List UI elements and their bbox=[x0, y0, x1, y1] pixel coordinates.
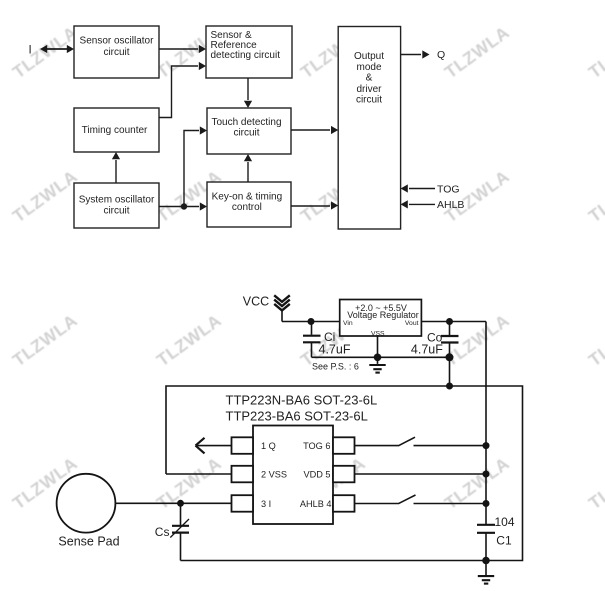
wire: ground net rectangle (top edge, right edge, bottom, left edge to VSS pin) bbox=[166, 386, 523, 561]
wire: B7 to B3 arrow bbox=[291, 201, 338, 209]
wire: B5 to B3 arrow bbox=[291, 126, 338, 134]
junction node TOG/VDD net bbox=[483, 442, 490, 449]
node VCC label bbox=[243, 295, 269, 309]
svg-text:TLZWLA: TLZWLA bbox=[9, 22, 81, 82]
svg-text:VDD 5: VDD 5 bbox=[303, 469, 330, 479]
wire: TOG input arrow into B3 bbox=[401, 184, 435, 192]
pin 3 box (I) bbox=[232, 495, 254, 512]
node AHLB label bbox=[437, 199, 464, 211]
svg-text:Q: Q bbox=[437, 49, 445, 61]
svg-text:TLZWLA: TLZWLA bbox=[441, 166, 513, 226]
power symbol VCC (triple chevron) bbox=[274, 295, 290, 310]
value label Ci 4.7uF bbox=[319, 343, 351, 357]
wire: rail right segment regulator Vout to VDD corner bbox=[421, 321, 486, 323]
pin 2 box (VSS) bbox=[232, 466, 254, 483]
svg-text:1 Q: 1 Q bbox=[261, 441, 276, 451]
svg-text:Cs: Cs bbox=[155, 525, 170, 539]
svg-text:TLZWLA: TLZWLA bbox=[153, 453, 225, 513]
svg-text:TLZWLA: TLZWLA bbox=[585, 22, 605, 82]
svg-text:&: & bbox=[366, 73, 373, 84]
label TTP223-BA6 SOT-23-6L bbox=[226, 409, 368, 424]
wire: VCC rail left segment to regulator Vin bbox=[282, 321, 340, 323]
wire: B1 to B2 arrow bbox=[159, 45, 206, 53]
wire: ground line Ci to Co bbox=[312, 356, 450, 358]
wire: Q output arrow from pin 1 bbox=[196, 438, 232, 454]
wire: B6 to B4 arrow bbox=[112, 152, 120, 183]
label C1 bbox=[496, 534, 512, 548]
svg-text:AHLB: AHLB bbox=[437, 199, 464, 211]
svg-text:TOG: TOG bbox=[437, 183, 460, 195]
wire: junction up to B5 arrow bbox=[184, 126, 207, 206]
svg-text:Vin: Vin bbox=[343, 320, 353, 327]
sense pad electrode bbox=[57, 474, 116, 533]
svg-text:mode: mode bbox=[356, 62, 381, 73]
pin 4 box (AHLB) bbox=[333, 495, 355, 512]
junction node rail/Ci bbox=[308, 318, 315, 325]
svg-text:See P.S. : 6: See P.S. : 6 bbox=[312, 361, 359, 371]
wire: I bidirectional arrow to B1 bbox=[40, 45, 74, 53]
svg-text:System oscillator: System oscillator bbox=[79, 195, 155, 206]
svg-text:3 I: 3 I bbox=[261, 499, 271, 509]
svg-text:Output: Output bbox=[354, 51, 384, 62]
svg-text:circuit: circuit bbox=[356, 95, 382, 106]
svg-text:TOG 6: TOG 6 bbox=[303, 441, 330, 451]
node TOG label bbox=[437, 183, 460, 195]
block B1: Sensor oscillator circuit bbox=[74, 26, 159, 78]
svg-text:C1: C1 bbox=[496, 534, 512, 548]
label Ci bbox=[324, 330, 335, 344]
block B4: Timing counter bbox=[74, 108, 159, 152]
svg-text:VCC: VCC bbox=[243, 295, 269, 309]
wire: B6 to B7 arrow bbox=[159, 202, 207, 210]
voltage regulator U1 bbox=[340, 300, 422, 338]
svg-text:Touch detecting: Touch detecting bbox=[211, 117, 281, 128]
block B6: System oscillator circuit bbox=[74, 183, 159, 228]
svg-text:TLZWLA: TLZWLA bbox=[9, 310, 81, 370]
wire: pin 5 VDD row bbox=[355, 473, 487, 475]
junction node VSS/ground line bbox=[374, 354, 382, 362]
wire: AHLB input arrow into B3 bbox=[401, 200, 435, 208]
svg-text:AHLB 4: AHLB 4 bbox=[300, 499, 332, 509]
svg-text:TLZWLA: TLZWLA bbox=[585, 166, 605, 226]
svg-text:TLZWLA: TLZWLA bbox=[585, 453, 605, 513]
pin label AHLB 4 bbox=[300, 499, 332, 509]
junction node AHLB/VDD net bbox=[483, 500, 490, 507]
svg-text:circuit: circuit bbox=[103, 205, 129, 216]
capacitor C1 bbox=[477, 525, 495, 533]
svg-text:TLZWLA: TLZWLA bbox=[153, 310, 225, 370]
capacitor Co bbox=[441, 322, 459, 387]
junction node VDD row bbox=[483, 471, 490, 478]
svg-text:TLZWLA: TLZWLA bbox=[441, 22, 513, 82]
pin label TOG 6 bbox=[303, 441, 330, 451]
ground symbol at VSS bbox=[369, 357, 385, 372]
svg-text:TLZWLA: TLZWLA bbox=[9, 166, 81, 226]
node Q label bbox=[437, 49, 445, 61]
svg-text:TLZWLA: TLZWLA bbox=[585, 310, 605, 370]
value label 104 bbox=[495, 515, 515, 529]
svg-text:Sense Pad: Sense Pad bbox=[58, 534, 119, 548]
wire: regulator VSS stem bbox=[377, 336, 379, 357]
wire: B3 to Q output arrow bbox=[401, 50, 430, 58]
junction node Co/ground top edge bbox=[446, 383, 453, 390]
IC U2 body TTP223 bbox=[253, 426, 333, 525]
pin label 2 VSS bbox=[261, 469, 287, 479]
svg-text:Sensor oscillator: Sensor oscillator bbox=[80, 36, 155, 47]
svg-text:Vout: Vout bbox=[405, 320, 419, 327]
note label See P.S. : 6 bbox=[312, 361, 359, 371]
svg-text:circuit: circuit bbox=[233, 128, 259, 139]
pin label VDD 5 bbox=[303, 469, 330, 479]
capacitor Ci bbox=[303, 322, 321, 358]
label Sense Pad bbox=[58, 534, 119, 548]
wire: VDD vertical net bbox=[485, 322, 487, 561]
svg-text:TTP223-BA6 SOT-23-6L: TTP223-BA6 SOT-23-6L bbox=[226, 409, 368, 424]
junction node Co/ground line bbox=[446, 353, 454, 361]
capacitor Cs (adjustable) bbox=[170, 503, 189, 560]
svg-text:TTP223N-BA6 SOT-23-6L: TTP223N-BA6 SOT-23-6L bbox=[226, 393, 378, 408]
junction node bottom ground bbox=[482, 557, 490, 565]
block B2: Sensor & Reference detecting circuit bbox=[206, 26, 292, 78]
pin 5 box (VDD) bbox=[333, 466, 355, 483]
svg-text:4.7uF: 4.7uF bbox=[411, 343, 443, 357]
pin 6 box (TOG) bbox=[333, 437, 355, 454]
svg-text:2 VSS: 2 VSS bbox=[261, 469, 287, 479]
svg-text:control: control bbox=[232, 202, 262, 213]
wire: VCC stem to rail bbox=[281, 309, 283, 322]
pin label 3 I bbox=[261, 499, 271, 509]
pin 1 box (Q) bbox=[232, 437, 254, 454]
junction node on B6 output bbox=[181, 203, 187, 209]
svg-text:Voltage Regulator: Voltage Regulator bbox=[347, 310, 419, 320]
junction node pad wire / Cs bbox=[177, 500, 184, 507]
wire: B2 to B5 arrow bbox=[244, 78, 252, 108]
svg-text:Timing counter: Timing counter bbox=[82, 125, 148, 136]
wire: B7 to B5 arrow bbox=[244, 154, 252, 182]
value label Co 4.7uF bbox=[411, 343, 443, 357]
wire: pin 4 AHLB row with switch S2 bbox=[355, 495, 487, 504]
ground symbol at bottom bbox=[478, 561, 494, 584]
label Cs bbox=[155, 525, 170, 539]
svg-text:detecting circuit: detecting circuit bbox=[211, 50, 281, 61]
svg-text:4.7uF: 4.7uF bbox=[319, 343, 351, 357]
pin label 1 Q bbox=[261, 441, 276, 451]
wire: B4 to B2 arrow bbox=[159, 62, 206, 118]
block B7: Key-on & timing control bbox=[207, 182, 291, 227]
svg-text:I: I bbox=[29, 44, 32, 56]
label TTP223N-BA6 SOT-23-6L bbox=[226, 393, 378, 408]
label Co bbox=[427, 331, 443, 345]
wire: sense pad to pin 3 bbox=[115, 502, 231, 504]
node I label bbox=[29, 44, 32, 56]
svg-text:104: 104 bbox=[495, 515, 515, 529]
wire: pin 6 TOG row with switch S1 bbox=[355, 437, 487, 446]
svg-text:circuit: circuit bbox=[103, 47, 129, 58]
block B3: Output mode & driver circuit bbox=[338, 27, 400, 230]
block B5: Touch detecting circuit bbox=[207, 108, 291, 154]
junction node rail/Co bbox=[446, 318, 453, 325]
svg-text:driver: driver bbox=[356, 84, 382, 95]
